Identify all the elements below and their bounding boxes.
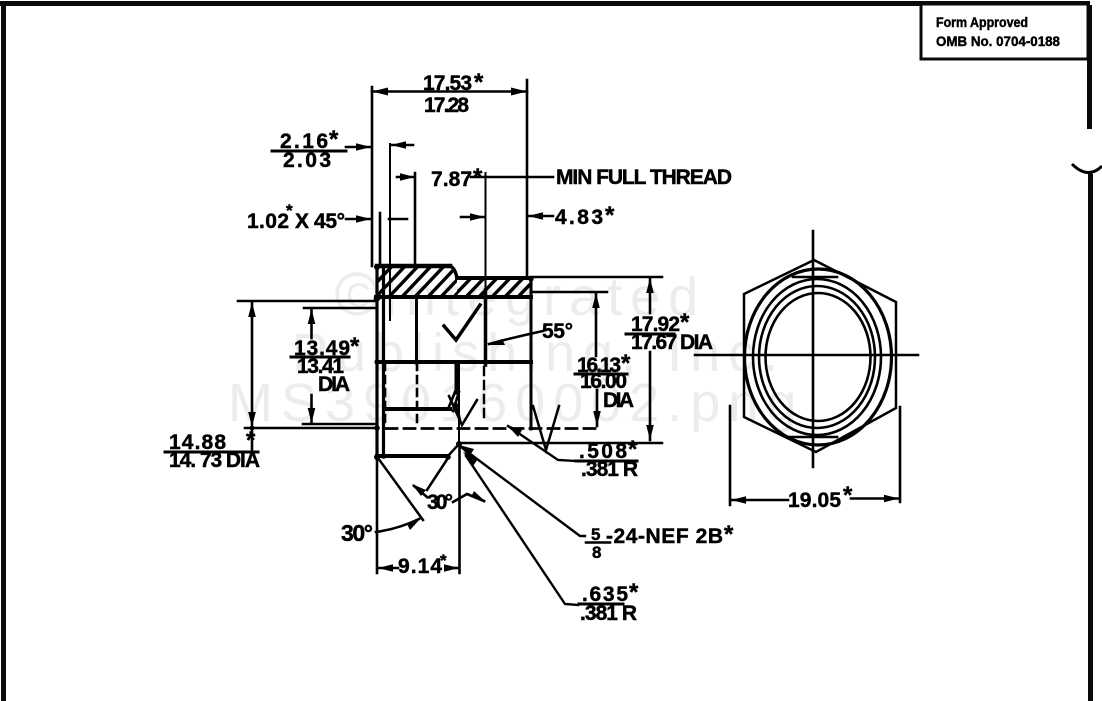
right lower vertical <box>458 363 460 445</box>
svg-text:*: * <box>605 202 615 229</box>
svg-text:17.28: 17.28 <box>424 94 469 117</box>
bore cone thick seam <box>455 364 460 392</box>
page border left <box>1 1 6 701</box>
dim 9.14 arrow left <box>378 567 398 570</box>
hex circles <box>745 269 892 445</box>
scan ink blobs at junctions <box>250 264 534 460</box>
leader .508 <box>508 426 576 461</box>
part bottom face <box>377 454 448 458</box>
fraction bar 13.49 <box>291 356 349 359</box>
hex right face <box>485 173 487 290</box>
leader 30 upper left arrow <box>414 486 427 497</box>
svg-text:*: * <box>843 482 853 509</box>
dim 1.02x45 arrow <box>346 218 371 221</box>
part top step <box>450 266 457 278</box>
svg-text:*: * <box>286 201 293 220</box>
ext line 14.88 bottom <box>245 427 377 430</box>
svg-text:7.87: 7.87 <box>431 168 472 191</box>
svg-text:19.05: 19.05 <box>788 489 841 512</box>
dim 19.05 line right <box>851 497 899 500</box>
dim line 14.88 <box>251 302 254 450</box>
hex bottom chamfer chord <box>786 436 837 439</box>
svg-text:*: * <box>474 69 484 96</box>
chamfer tick line <box>389 218 407 221</box>
inner vertical solid <box>415 299 418 361</box>
svg-text:DIA: DIA <box>603 389 634 412</box>
ext line left face x372 <box>371 87 374 266</box>
dim line 17.92 lower <box>649 352 652 440</box>
svg-text:55°: 55° <box>542 320 573 343</box>
ext line 9.14 right <box>458 445 461 573</box>
fraction bar 14.88 <box>165 451 258 454</box>
fraction bar .635 <box>579 603 623 606</box>
dim 4.83 arrow right <box>528 215 553 218</box>
page border right lower segment <box>1088 174 1093 701</box>
hex chamfer right diagonal <box>427 458 448 490</box>
leader 30 lower arc <box>376 519 419 532</box>
thread runout V outer <box>533 406 559 450</box>
hatching left band <box>360 263 553 300</box>
hexagon outline <box>744 260 896 452</box>
punch-hole arc on right border <box>1072 164 1102 173</box>
svg-text:MIN FULL THREAD: MIN FULL THREAD <box>556 166 732 189</box>
chamfer edge line x390 <box>389 144 391 320</box>
svg-text:Form Approved: Form Approved <box>936 14 1028 30</box>
dim line 17.92 upper <box>649 278 652 313</box>
leader 55 deg <box>489 331 543 344</box>
svg-text:4.83: 4.83 <box>555 206 603 229</box>
part left face inner line <box>382 266 385 457</box>
ext line x415 <box>414 173 417 266</box>
hex chamfer left diagonal <box>378 458 423 520</box>
fraction bar 17.92 <box>626 333 674 336</box>
hex view horizontal centerline <box>695 354 918 357</box>
hatch band bottom edge <box>376 295 531 299</box>
bore cone wedge right <box>453 392 459 411</box>
dim 19.05 line left <box>731 499 788 502</box>
svg-text:OMB No. 0704-0188: OMB No. 0704-0188 <box>936 33 1060 49</box>
svg-text:14. 73 DIA: 14. 73 DIA <box>169 449 260 472</box>
dim 7.87 line right <box>471 176 527 179</box>
dim line 16 dia upper <box>595 293 598 356</box>
dim 4.83 arrow left <box>461 216 485 219</box>
part left face outer line <box>375 266 378 458</box>
bore cone wedge left <box>448 392 455 409</box>
page border right upper segment <box>1087 5 1092 129</box>
ext line 13.49 top <box>304 307 377 310</box>
hex face hidden continuation (dashed) <box>483 367 485 420</box>
Form Approved box <box>921 4 1088 59</box>
part right end face <box>530 278 533 429</box>
fraction bar 16.13 <box>575 373 627 376</box>
hex view vertical centerline <box>812 231 815 467</box>
dim line 13.49 lower <box>310 395 313 423</box>
dim 9.14 arrow right <box>446 567 459 570</box>
ext line 19.05 right <box>899 407 902 502</box>
ext line 17.92 top <box>531 276 662 279</box>
leader 5/8-24-NEF <box>461 447 585 536</box>
sleeve bottom line to right <box>459 442 662 445</box>
svg-text:X 45°: X 45° <box>295 210 345 233</box>
svg-text:*: * <box>473 164 483 191</box>
svg-text:.381 R: .381 R <box>580 602 637 625</box>
svg-text:8: 8 <box>592 543 601 562</box>
part top face right (sleeve) <box>457 276 531 280</box>
ext line 14.88 top <box>238 300 377 303</box>
fraction bar .508 <box>576 460 637 463</box>
dim 7.87 arrow left <box>397 176 414 179</box>
lower mid horizontal <box>384 407 450 411</box>
hidden thread line horizontal (dashed) <box>386 427 600 430</box>
dim line 16 dia lower <box>596 390 599 426</box>
ext line right x527 <box>526 80 529 278</box>
leader .635 <box>466 456 578 605</box>
svg-text:*: * <box>350 333 360 360</box>
hidden line vertical right (dashed) <box>416 363 419 425</box>
fraction bar 2.16/2.03 <box>272 150 346 153</box>
svg-text:17.53: 17.53 <box>423 72 472 95</box>
svg-text:17.67 DIA: 17.67 DIA <box>631 331 713 354</box>
thread symbol check mark <box>444 305 480 340</box>
hidden line vertical left (dashed) <box>384 363 387 425</box>
svg-text:-24-NEF 2B: -24-NEF 2B <box>606 525 723 548</box>
fraction bar 5/8 <box>586 541 610 544</box>
leader MIN FULL THREAD <box>527 176 553 179</box>
svg-text:*: * <box>440 551 447 570</box>
svg-text:DIA: DIA <box>318 373 350 396</box>
ext line 9.14 left <box>376 458 379 573</box>
svg-text:5: 5 <box>591 525 600 544</box>
annotation texts <box>169 69 853 625</box>
svg-text:9.14: 9.14 <box>398 555 442 578</box>
svg-text:.381 R: .381 R <box>581 458 638 481</box>
thread runout V inner <box>449 396 477 425</box>
svg-text:2.03: 2.03 <box>283 149 331 172</box>
hex top chamfer chord <box>793 276 837 279</box>
dim 2.16 arrow right <box>391 144 413 147</box>
ext line 13.49 bottom <box>303 423 377 426</box>
part top face left (flange) <box>377 264 450 269</box>
dim line 13.49 upper <box>310 309 313 338</box>
ext line 19.05 left <box>729 406 732 505</box>
svg-text:30°: 30° <box>341 520 373 546</box>
dim line 17.53 <box>372 90 527 93</box>
svg-text:1.02: 1.02 <box>247 210 289 233</box>
svg-text:*: * <box>724 521 734 548</box>
page border top <box>0 1 1090 6</box>
dim 2.16 arrow left <box>346 146 371 149</box>
bottom right corner diagonal <box>448 444 459 456</box>
ext line x380 above part <box>379 213 382 266</box>
ext line 16 dia top <box>532 291 607 294</box>
leader 30 upper right hook <box>453 494 484 502</box>
watermark line 1 Integrated <box>337 267 706 327</box>
svg-text:30°: 30° <box>427 491 453 514</box>
part mid horizontal <box>377 360 531 364</box>
